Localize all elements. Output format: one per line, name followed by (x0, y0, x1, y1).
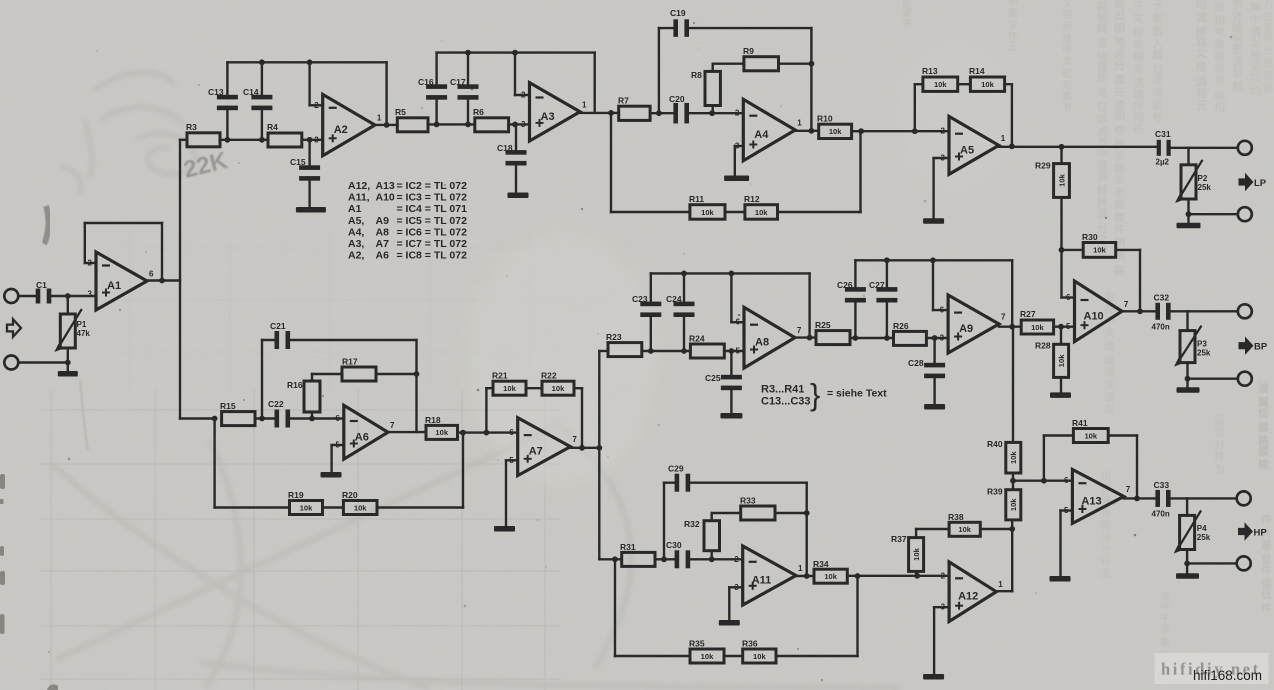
resistor R32 (711, 551, 713, 560)
op-amp A13 (1072, 470, 1123, 524)
node A2 output (384, 122, 390, 128)
resistor R11 10k (690, 205, 725, 220)
resistor R4 (268, 133, 302, 147)
node top C14 (259, 59, 265, 65)
wire R29/R30 to A10 pin6 (1060, 250, 1062, 298)
capacitor C23 (650, 273, 652, 304)
wire A13 pin5 down (1059, 511, 1061, 576)
wire C1 to A1 pin3 (50, 295, 96, 297)
resistor R27 10k (1021, 320, 1053, 334)
resistor R26 (894, 331, 927, 345)
node R31 input (612, 556, 618, 562)
node C16 bottom (434, 122, 440, 128)
wire R31 to C30 (655, 558, 677, 560)
resistor R9 (744, 57, 779, 71)
ground (C15) (296, 207, 326, 213)
wire R11 rail left (611, 211, 690, 213)
wire R18 to A7 pin6 (458, 431, 518, 433)
wire A9 feedback riser (1011, 260, 1013, 326)
node C13 bottom (225, 137, 231, 143)
wire J1 to C1 (18, 295, 37, 297)
resistor R13 10k (923, 77, 958, 91)
node R37 bottom (914, 573, 920, 579)
wire C19 top right (687, 27, 812, 29)
input terminal J1 (upper) (4, 289, 18, 303)
wire A2 output feedback riser (385, 62, 387, 125)
pot P3 25k (1186, 311, 1188, 330)
input block arrow (7, 319, 21, 337)
wire down to R19 rail (213, 419, 215, 508)
distribution rail A7 out (598, 351, 600, 559)
ground (A11) (719, 620, 740, 626)
resistor R35 10k (690, 649, 724, 663)
node R16 bottom (309, 416, 315, 422)
node A3 output (608, 110, 614, 116)
HP upper terminal (1237, 491, 1251, 505)
wire A6 pin5 down (330, 445, 332, 472)
wire R14 right (1005, 83, 1012, 85)
wire R3 to R4 (220, 139, 268, 141)
wire node to ground (67, 363, 69, 372)
wire A5 pin3 down (932, 158, 934, 218)
capacitor C26 (854, 260, 856, 290)
wire P2 bottom (1187, 199, 1189, 214)
resistor R20 10k (343, 501, 377, 515)
wire A8 output (795, 336, 816, 338)
wire A13 pin5 stub (1061, 509, 1073, 511)
op-amp A3 (530, 83, 581, 141)
node A1 output feedback (159, 278, 165, 284)
node R22 junction (579, 445, 585, 451)
capacitor C1 (36, 289, 41, 304)
resistor R3 (187, 133, 220, 147)
wire C29 right lead (688, 482, 807, 484)
capacitor C18 (515, 124, 517, 152)
wire J2 to ground node (18, 361, 68, 363)
wire P2 ground stub (1187, 214, 1189, 222)
wire R23 to R24 (642, 350, 691, 352)
node C17 bottom (465, 122, 471, 128)
wire down to R11 rail (610, 113, 612, 212)
wire A2 output (375, 124, 397, 126)
capacitor C24 (683, 273, 685, 304)
node A7 output (596, 445, 602, 451)
node C25 top (729, 348, 735, 354)
wire A10 pin6 stub (1062, 296, 1075, 298)
op-amp A8 (744, 307, 795, 368)
wire R25 to R26 (850, 337, 894, 339)
node C27 bottom (884, 335, 890, 341)
wire R13 riser (914, 84, 916, 131)
wire A7 pin5 stub (506, 459, 518, 461)
resistor R30 10k (1083, 243, 1116, 258)
wire C21/R17 feedback down (415, 340, 417, 432)
wire C30 to A11 pin2 (688, 558, 743, 560)
wire A9 output (999, 326, 1021, 328)
node R32 bottom (709, 556, 715, 562)
node top C17 (465, 50, 471, 56)
wire R40 bottom stub (1012, 473, 1014, 481)
wire C19 top left (659, 27, 676, 29)
node R30 left (1059, 247, 1065, 253)
wire down to R35 rail (614, 559, 616, 656)
node C14 bottom (259, 137, 265, 143)
ground (A13) (1050, 576, 1071, 582)
wire R11 feedback down (859, 131, 861, 212)
resistor R34 10k (814, 569, 847, 583)
resistor R6 (475, 118, 509, 132)
wire C21 left lead (262, 339, 277, 341)
rail A9 out down to R40 (1012, 327, 1014, 443)
HP output arrow (1238, 522, 1253, 540)
ground (A5) (923, 218, 944, 224)
wire A1 pin2 stub (85, 262, 96, 264)
wire A12 pin3 stub (934, 606, 949, 608)
wire R20 feedback riser (462, 433, 464, 508)
wire R16 to R17 (312, 373, 342, 375)
node A8 output (807, 335, 813, 341)
resistor R17 (342, 367, 376, 381)
op-amp A12 (949, 562, 996, 622)
wire A11 pin3 down (728, 587, 730, 619)
node A4 output (809, 128, 815, 134)
wire P4 bottom (1186, 550, 1188, 564)
wire R9 right (779, 63, 812, 65)
wire R28 ground stub (1060, 377, 1062, 392)
note: R3..R41 C13..C33 siehe Text (761, 377, 887, 412)
node A13 output (1134, 496, 1140, 502)
ground (A7) (494, 526, 515, 532)
node top A3 pin2 riser (512, 50, 518, 56)
ground (C18) (508, 193, 529, 199)
resistor R40 10k (1006, 442, 1021, 473)
resistor R5 (397, 118, 428, 132)
wire C21 riser (261, 340, 263, 419)
wire to HP lower terminal (1187, 562, 1237, 564)
ground (A4) (724, 176, 749, 182)
wire A1 feedback up (84, 223, 86, 263)
capacitor C13 (226, 62, 228, 98)
wire R37 top (915, 529, 917, 538)
ground (P2) (1177, 223, 1201, 229)
wire A4 pin3 stub (735, 145, 744, 147)
wire A11 pin3 stub (729, 586, 742, 588)
node R40/R39 junction (1010, 478, 1016, 484)
node P2 ground (1186, 211, 1192, 217)
op-amp A11 (743, 546, 796, 605)
wire R7 right (650, 112, 676, 114)
resistor R38 10k (949, 522, 980, 536)
wire R24 to A8 pin5 (724, 350, 744, 352)
node R34 output (855, 573, 861, 579)
resistor R22 10k (542, 381, 574, 395)
wire A3 feedback riser (594, 53, 596, 113)
capacitor C14 (261, 62, 263, 98)
node A9 output (1009, 324, 1015, 330)
wire C29 riser (663, 483, 665, 560)
resistor R21 10k (493, 381, 526, 395)
ground (input) (58, 371, 78, 377)
wire R15 to C22 (255, 417, 277, 419)
resistor R8 (712, 106, 714, 114)
resistor R15 (222, 412, 255, 426)
node R10 output (858, 128, 864, 134)
wire R38 right (980, 528, 1012, 530)
wire R3 left stub (180, 139, 187, 141)
wire feedback down to A4 output (810, 28, 812, 131)
capacitor C21 (275, 331, 280, 349)
wire A2 top feedback (227, 61, 386, 63)
node A10 output (1137, 308, 1143, 314)
wire to BP lower terminal (1188, 378, 1238, 380)
wire R4 to A2 pin3 (302, 139, 323, 141)
BP lower terminal (1238, 372, 1252, 386)
capacitor C16 (435, 53, 437, 88)
resistor R39 10k (1012, 481, 1014, 490)
wire R10 to A5 pin2 (852, 130, 949, 132)
HP lower terminal (1237, 556, 1251, 570)
BP output arrow (1239, 337, 1254, 355)
wire C29 feedback down (806, 483, 808, 576)
capacitor C31 2u2 (1157, 140, 1161, 156)
capacitor C19 (673, 19, 678, 36)
wire R17 right (376, 373, 417, 375)
node P4 ground (1184, 561, 1190, 567)
wire R19 to R20 (323, 506, 344, 508)
capacitor C20 (673, 103, 678, 124)
resistor R25 (816, 331, 850, 345)
node R31 output (661, 556, 667, 562)
pot P4 25k (1186, 498, 1188, 515)
wire C29 left lead (664, 482, 677, 484)
node P3 ground (1185, 376, 1191, 382)
capacitor C30 (675, 550, 680, 568)
node R27 output (1058, 324, 1064, 330)
resistor R31 (622, 552, 655, 566)
ground (A6) (321, 472, 342, 478)
wire R36 feedback riser (856, 576, 858, 656)
ground (C25) (720, 413, 742, 419)
wire R32 to R33 (712, 512, 741, 514)
node C28 top (932, 335, 938, 341)
resistor R7 (619, 106, 650, 120)
node R41 riser (1041, 478, 1047, 484)
node C23 bottom (648, 348, 654, 354)
wire R22 right (574, 387, 582, 389)
wire R39 node to A12 output (1011, 529, 1013, 591)
wire A8 top feedback (651, 272, 810, 274)
LP lower terminal (1238, 207, 1252, 221)
wire A8 feedback riser (808, 273, 810, 337)
capacitor C27 (886, 260, 888, 290)
wire to LP lower terminal (1189, 213, 1238, 215)
wire A7 output (570, 447, 599, 449)
wire R41 riser (1043, 436, 1045, 481)
wire R29 to R30 node (1060, 197, 1062, 250)
node R15 input (212, 416, 218, 422)
ground (P3) (1177, 387, 1200, 393)
wire C19 riser (658, 28, 660, 113)
capacitor C15 (308, 140, 310, 168)
node C24 bottom (681, 348, 687, 354)
wire rail to R23 (599, 350, 608, 352)
wire C33 to HP terminal (1169, 497, 1237, 499)
wire R5 to R6 (428, 123, 475, 125)
wire C21 right lead (287, 339, 416, 341)
op-amp A10 (1075, 281, 1122, 342)
node R21 riser (484, 430, 490, 436)
wire R36 to R34 node (776, 655, 858, 657)
wire R12 to R10 node (778, 211, 861, 213)
node top C27 (884, 257, 890, 263)
wire A3 output (580, 112, 619, 114)
wire P3 bottom (1186, 363, 1188, 379)
op-amp A6 (344, 405, 388, 459)
node R38/R39 junction (1009, 526, 1015, 532)
wire node to A13 pin6 (1013, 480, 1072, 482)
resistor R12 10k (745, 205, 778, 220)
legend: op-amp / IC assignment (348, 180, 467, 262)
node C15 top (307, 137, 313, 143)
capacitor C17 (467, 53, 469, 88)
resistor R24 (690, 344, 724, 358)
wire A8 pin6 stub (731, 321, 744, 323)
wire A4 output (795, 130, 819, 132)
wire C22 to A6 pin6 (287, 417, 343, 419)
resistor R29 10k (1060, 147, 1062, 164)
potentiometer P1 47k (67, 296, 69, 314)
node ground junction (65, 360, 71, 366)
resistor R36 10k (743, 649, 776, 663)
wire A12 pin3 down (933, 607, 935, 673)
ground (C28) (924, 404, 945, 410)
wire A7 pin5 down (505, 460, 507, 525)
wire A1 feedback down (161, 223, 163, 281)
wire A5 output to C31 (999, 146, 1156, 148)
wire R21 to R22 (526, 387, 542, 389)
wire A2 pin2 stub (310, 104, 323, 106)
node R14 junction (1009, 143, 1015, 149)
ground (P4) (1176, 573, 1199, 579)
resistor R41 10k (1073, 429, 1108, 443)
wire A9 top feedback (855, 259, 1012, 261)
node C19/C20 branch (656, 110, 662, 116)
resistor R14 10k (970, 77, 1004, 91)
wire C32 to BP terminal (1169, 310, 1238, 312)
node R8 bottom (709, 110, 715, 116)
wire A12 output (996, 590, 1012, 592)
pot P2 25k (1187, 148, 1189, 165)
wire R11 to R12 (725, 211, 745, 213)
wire C31 to LP terminal (1169, 147, 1238, 149)
capacitor C32 470n (1155, 303, 1160, 320)
node C26 bottom (853, 335, 859, 341)
wire R26 to A9 pin3 (926, 337, 948, 339)
wire R30 right (1116, 249, 1140, 251)
wire R41 feedback down (1136, 436, 1138, 499)
wire A9 pin6 stub (933, 309, 948, 311)
capacitor C29 (675, 474, 680, 492)
wire R33 right (775, 512, 807, 514)
capacitor C28 (933, 338, 935, 366)
node A11 output (804, 573, 810, 579)
LP output arrow (1239, 173, 1254, 191)
wire R22 feedback down (581, 388, 583, 448)
wire R21 riser (485, 388, 487, 432)
wire C20 to A4 pin2 (687, 112, 744, 114)
node R9/C19 feedback (809, 61, 815, 67)
wire R37 to R38 (916, 528, 949, 530)
wire R27 to A10 pin5 (1054, 326, 1075, 328)
node R13 riser (912, 128, 918, 134)
wire R8 to R9 (713, 63, 744, 65)
capacitor C33 470n (1155, 490, 1160, 507)
ground (A12) (923, 674, 944, 680)
node R18 output (460, 430, 466, 436)
wire A6 output (388, 431, 426, 433)
wire A3 top feedback (437, 51, 595, 53)
wire R35 rail left (615, 655, 690, 657)
wire R41 right (1108, 434, 1137, 436)
wire A1 down-rail to R15 (180, 417, 215, 419)
wire R19 rail left (215, 506, 290, 508)
wire R6 to A3 pin3 (509, 123, 530, 125)
wire A6 pin5 stub (332, 444, 344, 446)
node R33/C29 junction (804, 510, 810, 516)
wire R3 riser / A1 output down (179, 140, 181, 419)
wire A13 output (1124, 497, 1155, 499)
wire R20 to R18 node (377, 506, 463, 508)
node R17/C21 junction (414, 371, 420, 377)
resistor R23 (608, 343, 642, 357)
resistor R37 10k (915, 571, 917, 575)
wire rail to R31 (599, 558, 621, 560)
wire P1 to lower rail (67, 348, 69, 363)
wire A4 pin3 down (734, 146, 736, 175)
resistor R28 10k (1060, 327, 1062, 345)
op-amp A5 (949, 116, 999, 174)
wire R14 feedback down (1011, 84, 1013, 146)
node P1 top (65, 293, 71, 299)
resistor R19 10k (290, 501, 323, 515)
wire A5 pin3 stub (934, 157, 949, 159)
capacitor C22 (275, 410, 280, 428)
wire R30 left lead (1062, 249, 1084, 251)
wire R13 to R14 (958, 83, 971, 85)
op-amp A9 (948, 295, 999, 353)
wire A3 pin2 stub (515, 94, 530, 96)
watermark background box (1155, 653, 1269, 684)
capacitor C25 (730, 351, 732, 378)
input terminal J2 (lower) (4, 356, 18, 370)
resistor R10 10k (819, 124, 852, 138)
node C18 top (512, 122, 518, 128)
node top A2 pin2 riser (307, 59, 313, 65)
wire P4 ground stub (1186, 563, 1188, 573)
wire A1 feedback top (85, 222, 162, 224)
wire A1 output (147, 279, 180, 281)
node top A8 pin6 riser (729, 271, 735, 277)
op-amp A2 (323, 94, 375, 155)
wire R34 to A12 pin2 (847, 575, 949, 577)
ground (R28) (1050, 392, 1071, 398)
op-amp A4 (743, 99, 795, 160)
wire R35 to R36 (724, 655, 743, 657)
LP upper terminal (1238, 141, 1252, 155)
BP upper terminal (1238, 304, 1252, 318)
resistor R33 (741, 506, 775, 520)
node top C24 (681, 271, 687, 277)
